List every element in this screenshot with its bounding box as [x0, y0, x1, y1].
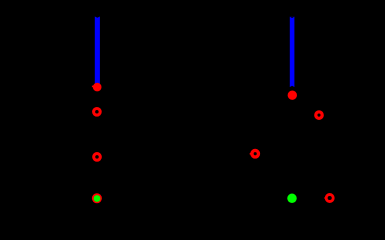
atom O ring middle-left (right molecule)	[252, 150, 259, 157]
atom N dot (left molecule)	[93, 83, 102, 92]
atom O ring 2 (left molecule)	[94, 154, 101, 161]
atom O ring upper (right molecule)	[316, 112, 322, 118]
atom N dot (right molecule)	[288, 91, 297, 100]
nitrile bond C#N (left molecule), blue	[95, 17, 100, 87]
atom O ring with Cl highlight (left molecule)	[92, 193, 102, 203]
atom O ring 1 (left molecule)	[94, 109, 101, 116]
nitrile bond C#N (right molecule), blue	[290, 17, 295, 87]
bond stub at O ring lower-right (right molecule)	[324, 197, 325, 199]
atom Cl dot green (right molecule)	[287, 194, 297, 204]
atom O ring lower-right (right molecule)	[326, 195, 333, 202]
bond stub at O ring middle-left (right molecule)	[250, 153, 251, 155]
bond stub at N dot (left molecule)	[92, 86, 93, 88]
